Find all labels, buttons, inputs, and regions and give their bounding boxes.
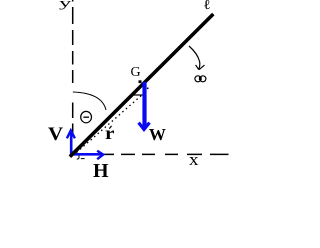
l label [203,0,211,11]
theta angle arc [73,92,106,110]
x axis dashed line [104,153,229,155]
V arrow [67,130,75,154]
H label [93,161,109,181]
r label accent [109,126,111,129]
W label [149,126,166,143]
y axis dashed line [72,0,74,133]
theta symbol [81,111,92,122]
dotted r vector [77,94,144,153]
origin angle tick mark [77,156,85,160]
stray dot right of W shaft [147,88,149,90]
y axis label [59,0,71,9]
x axis label [189,151,199,168]
H arrow [71,151,103,160]
r vector arrowhead barb [132,94,144,96]
G label [131,66,141,80]
point G dot [139,80,142,83]
omega symbol [195,76,206,82]
W arrow [139,82,150,129]
V label [48,125,63,144]
rod (bar of length l) [70,14,213,157]
omega curved arrow [189,46,205,70]
r label [105,124,114,142]
